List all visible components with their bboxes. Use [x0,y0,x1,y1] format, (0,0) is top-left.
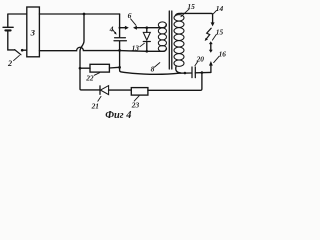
wire: diode 21 to resistor 23 [109,89,132,91]
node: gap / diode / primary junction [145,26,148,29]
label 15 leader (bolt) [212,34,216,40]
wire: capacitor branch vertical [119,14,121,37]
transformer primary winding 8 [158,22,166,52]
wire: left vertical branch down to diode row [80,14,100,90]
svg-text:6: 6 [128,11,132,20]
wire: capacitor 4 lower lead [119,41,121,67]
label 22 leader [94,73,99,76]
block 3 (converter) [27,7,40,57]
diode 13 cathode bar [143,41,150,43]
label 21 leader [98,96,101,101]
gap double arrow up head [209,41,213,44]
svg-text:Фиг 4: Фиг 4 [105,110,131,120]
transformer secondary winding 15 [174,15,184,67]
spark gap 6 left arrow [120,27,125,29]
wire: secondary bottom lead [176,66,181,73]
diode 13 triangle [143,32,150,40]
label 16 leader [214,56,220,62]
svg-text:8: 8 [151,65,155,74]
capacitor 4 plates [115,37,126,39]
node: output rail / secondary bottom junction [184,72,187,75]
wire: secondary top to discharge arrow 14 [181,13,212,22]
label 13 leader [140,43,144,46]
svg-text:23: 23 [131,101,140,110]
svg-text:13: 13 [132,43,140,52]
label 20 leader [195,62,198,66]
wire: top rail [39,13,119,15]
arrow 14 head [211,22,215,26]
wire: corner down to output return rail [120,67,192,74]
svg-text:20: 20 [196,55,205,64]
resistor 23 body [131,88,148,96]
spark gap 6 right arrow [133,26,137,30]
node: resistor 22 right junction [118,66,121,69]
transformer core [168,11,170,69]
gap double arrow shaft [210,44,212,50]
svg-text:4: 4 [109,24,114,33]
diode 21 triangle [101,86,109,95]
wire: secondary top lead [175,13,181,15]
label 8 leader [155,63,160,67]
label 6 leader [131,19,136,26]
diode 13 cathode lead [146,42,148,52]
capacitor 20 plates [191,67,193,78]
switch 2 contact dot [21,49,24,52]
svg-text:3: 3 [30,28,36,38]
wire: resistor 23 to output return [148,73,202,91]
wire: battery top lead to top rail [8,14,27,27]
wire: to transformer primary top [147,24,167,27]
label 15 leader (secondary) [181,9,189,17]
wire: output rail right of capacitor 20 [195,71,211,73]
diode 21 cathode bar [99,86,101,94]
wire: resistor 22 right lead [109,66,119,69]
node: resistor 22 left junction [79,67,82,70]
wire: resistor 22 left lead [80,67,90,69]
wire: switch to block 3 [23,49,27,51]
gap double arrow down head [209,50,213,53]
spark bolt 15 [206,28,211,39]
electrode arrow 16 [210,65,212,72]
wire: bottom rail with hop over vertical branch [39,47,166,51]
svg-text:2: 2 [7,59,12,68]
node: output rail / return branch junction [201,71,204,74]
svg-text:22: 22 [85,73,94,82]
svg-text:15: 15 [216,28,224,37]
label 4 leader [112,29,115,33]
node: top rail junction [83,13,86,16]
node: spark gap feed [119,27,121,29]
diode 13 anode lead [146,28,148,33]
label 2 leader [14,55,20,60]
switch 2 blade [15,50,21,55]
svg-text:14: 14 [216,4,224,13]
spark bolt 15 arrowhead [205,38,208,41]
label 14 leader [213,10,216,13]
svg-text:21: 21 [91,101,99,110]
svg-text:15: 15 [187,2,195,11]
node: bottom rail / capacitor branch junction [118,49,121,52]
wire: battery bottom lead [8,31,15,50]
node: bottom rail / diode branch junction [145,50,148,53]
label 4 leader arrowhead [114,32,117,35]
svg-text:16: 16 [219,49,227,58]
battery G1 plates [3,26,13,28]
label 23 leader [134,96,139,101]
resistor 22 body [90,64,109,72]
